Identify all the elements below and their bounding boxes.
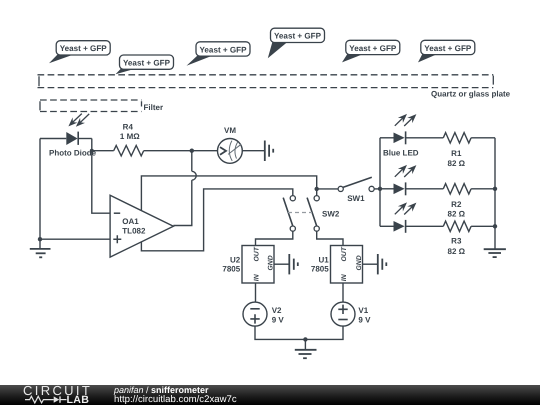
wire: V1 to bottom rail	[305, 326, 343, 339]
ground at bottom rail	[295, 339, 317, 358]
svg-text:OA1: OA1	[122, 217, 139, 226]
junction bottom rail	[303, 337, 307, 341]
svg-text:1 MΩ: 1 MΩ	[120, 132, 140, 141]
resistor R3	[443, 221, 471, 231]
svg-text:OUT: OUT	[341, 246, 348, 261]
LED D2 (row 1)	[380, 114, 443, 144]
wire: R1 to right bus	[471, 137, 495, 139]
wire: anode to photodiode	[40, 138, 66, 140]
callout label "Yeast + GFP" 2	[116, 55, 174, 74]
svg-text:Yeast + GFP: Yeast + GFP	[274, 32, 322, 41]
wire: U1 IN to V1	[342, 283, 344, 302]
wire: op-amp V+ pin to rail	[141, 176, 316, 211]
filter (dashed outline)	[40, 100, 142, 112]
wire: op-amp V- pin routing	[141, 189, 292, 251]
wire: photodiode anode left vertical (node A)	[39, 139, 41, 240]
wire hop over V+ rail	[192, 171, 196, 180]
footer bar	[0, 385, 540, 405]
junction right bus row2	[493, 187, 497, 191]
svg-text:Blue LED: Blue LED	[383, 149, 419, 158]
wire: vertical down to inverting input	[92, 139, 110, 214]
wire: U2 IN to V2	[255, 283, 257, 302]
svg-text:VM: VM	[224, 126, 236, 135]
wire: tee to R4	[92, 150, 114, 152]
footer url	[114, 395, 237, 405]
svg-text:Yeast + GFP: Yeast + GFP	[424, 44, 472, 53]
callout label "Yeast + GFP" 1	[49, 41, 110, 64]
svg-text:Filter: Filter	[144, 103, 164, 112]
wire: R2 to right bus	[471, 188, 495, 190]
svg-text:Yeast + GFP: Yeast + GFP	[349, 44, 397, 53]
op-amp OA1 TL082	[110, 195, 173, 257]
LED D4 (row 3)	[380, 202, 443, 232]
wire: op-amp output	[173, 180, 191, 225]
callout label "Yeast + GFP" 3	[187, 42, 251, 66]
CircuitLab logo schematic line	[0, 394, 100, 405]
svg-text:Quartz or glass plate: Quartz or glass plate	[431, 90, 511, 99]
wire: output up to node	[191, 151, 193, 172]
wire: R4 to output node	[144, 150, 218, 152]
switch SW1	[317, 177, 380, 191]
svg-text:SW2: SW2	[322, 210, 340, 219]
voltmeter VM	[218, 139, 243, 164]
svg-text:GND: GND	[356, 255, 363, 270]
LED3 emission arrows	[395, 206, 404, 214]
junction at ground node	[38, 237, 42, 241]
wire: SW2 left pole to U2 OUT	[256, 231, 293, 245]
ground (right-facing) at VM	[265, 141, 273, 162]
svg-text:U1: U1	[318, 255, 329, 264]
LED anode bus	[379, 138, 381, 227]
resistor R4	[114, 146, 144, 156]
svg-text:V2: V2	[272, 306, 282, 315]
wire: non-inverting input	[40, 238, 110, 240]
callout label "Yeast + GFP" 5	[342, 40, 400, 62]
CircuitLab logo text	[23, 384, 92, 397]
callout label "Yeast + GFP" 4	[268, 28, 325, 58]
junction LED bus / SW1	[378, 187, 382, 191]
junction right bus row3	[493, 224, 497, 228]
ground at op-amp input	[30, 239, 51, 257]
ground (right-facing) at U1	[378, 254, 387, 274]
LED1 emission arrows	[395, 117, 404, 125]
photo diode D1	[66, 114, 89, 145]
ground at right bus	[484, 249, 506, 257]
source V1 9V	[331, 302, 355, 326]
wire: R3 to right bus	[471, 225, 495, 227]
resistor R2	[443, 184, 471, 194]
svg-text:TL082: TL082	[122, 227, 146, 236]
junction: output node	[190, 149, 194, 153]
svg-text:R3: R3	[451, 236, 462, 245]
svg-text:V1: V1	[358, 306, 368, 315]
svg-text:OUT: OUT	[253, 246, 260, 261]
quartz or glass plate (dashed outline)	[38, 75, 494, 88]
svg-text:Photo Diode: Photo Diode	[49, 149, 97, 158]
svg-text:SW1: SW1	[347, 194, 365, 203]
svg-text:R2: R2	[451, 200, 462, 209]
photodiode incident light arrows	[72, 114, 82, 123]
svg-text:LAB: LAB	[67, 394, 90, 405]
wire: U1 GND to ground	[363, 263, 378, 265]
junction at R4 tee	[90, 149, 94, 153]
svg-text:7805: 7805	[311, 264, 329, 273]
callout label "Yeast + GFP" 6	[418, 40, 475, 62]
resistor R1	[443, 133, 471, 143]
LED D3 (row 2)	[380, 165, 443, 195]
svg-text:Yeast + GFP: Yeast + GFP	[199, 45, 247, 54]
svg-text:IN: IN	[341, 273, 348, 281]
wire: VM to ground	[242, 150, 264, 152]
svg-text:9 V: 9 V	[358, 315, 371, 324]
switch SW2 (DPST)	[283, 196, 319, 232]
ground (right-facing) at U2	[289, 254, 298, 274]
svg-text:9 V: 9 V	[272, 315, 285, 324]
svg-text:U2: U2	[230, 255, 241, 264]
svg-text:82 Ω: 82 Ω	[448, 210, 466, 219]
regulator U1 7805	[331, 246, 364, 284]
svg-text:82 Ω: 82 Ω	[448, 159, 466, 168]
wire: U2 GND to ground	[274, 263, 289, 265]
svg-text:R1: R1	[451, 149, 462, 158]
wire: cathode to corner	[78, 138, 92, 140]
footer title	[114, 386, 209, 395]
svg-text:82 Ω: 82 Ω	[448, 247, 466, 256]
svg-text:GND: GND	[268, 255, 275, 270]
junction at V+ / SW	[315, 187, 319, 191]
svg-text:Yeast + GFP: Yeast + GFP	[123, 59, 171, 68]
svg-text:IN: IN	[253, 273, 260, 281]
LED2 emission arrows	[395, 168, 404, 176]
right bus vertical	[494, 138, 496, 249]
svg-text:R4: R4	[123, 123, 134, 132]
wire: SW2 right pole to U1 OUT	[317, 231, 343, 245]
regulator U2 7805	[242, 246, 275, 284]
source V2 9V	[243, 302, 267, 326]
wire: V2 to bottom rail	[255, 326, 305, 339]
svg-text:Yeast + GFP: Yeast + GFP	[60, 44, 108, 53]
svg-text:7805: 7805	[222, 264, 240, 273]
